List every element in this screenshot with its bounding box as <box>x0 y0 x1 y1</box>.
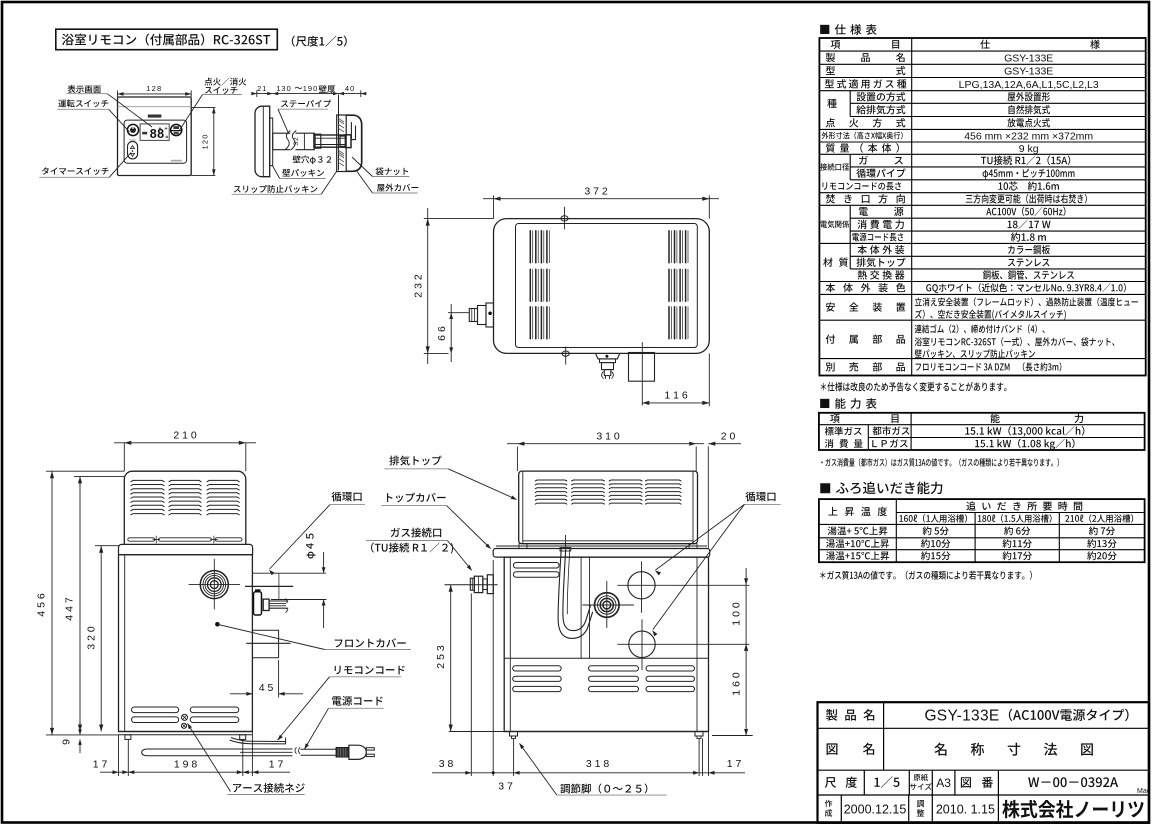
svg-text:190: 190 <box>303 84 319 93</box>
dimension 253 gas inlet height <box>435 585 504 732</box>
capacity row LPガス <box>872 439 1074 450</box>
remote control title box RC-326ST <box>56 29 277 50</box>
spec row 熱交換器 <box>858 270 1074 279</box>
power cord and plug <box>142 745 375 759</box>
spec row 焚き口方向 <box>826 194 1087 204</box>
spec row 点火方式 <box>826 118 1050 127</box>
spec table heading 仕様表 <box>820 24 877 35</box>
svg-text:4 5: 4 5 <box>259 682 274 694</box>
remote face panel <box>124 120 187 163</box>
side view bottom vents <box>132 707 239 723</box>
dimension 120 remote height <box>191 107 215 175</box>
svg-text:1 0 0: 1 0 0 <box>731 602 743 626</box>
label リモコンコード remote cord <box>278 666 405 741</box>
title block grid <box>818 702 1150 823</box>
reheating row +10C <box>826 539 1117 548</box>
wall packing plate <box>270 118 273 166</box>
spec row 電源 <box>859 207 1066 217</box>
side view exhaust bottom slots <box>128 536 242 544</box>
dimension 128 remote width <box>118 84 192 97</box>
dimension 320 body height <box>86 546 119 732</box>
circulation hose <box>558 535 593 638</box>
svg-text:120: 120 <box>201 133 210 149</box>
plan view bottom hanger bolt <box>562 347 569 365</box>
dimension 66 gas inlet offset <box>436 304 469 362</box>
label 表示画面 display screen <box>66 85 152 127</box>
spec row リモコンコードの長さ <box>822 181 1058 190</box>
bath remote front view outline <box>118 97 192 176</box>
front view top cover <box>493 544 710 557</box>
side view upper port stub and φ45 extension lines <box>245 573 326 599</box>
spec table footnote <box>821 382 1007 391</box>
svg-text:2010. 1.15: 2010. 1.15 <box>936 802 995 816</box>
svg-text:3 7 2: 3 7 2 <box>584 186 608 198</box>
plan view exhaust duct rectangle <box>629 353 655 382</box>
bottom dimension line 38-37-318-17 <box>432 560 745 792</box>
inner sliding pipe <box>314 134 346 148</box>
dimension 372 plan width <box>483 186 719 219</box>
reheating row +15C <box>826 551 1117 560</box>
spec row 型式適用ガス種 <box>825 79 1099 91</box>
reheating table grid <box>819 499 1145 562</box>
side view lower port stub <box>246 630 290 657</box>
front cover reference dot <box>215 622 325 650</box>
spec table grid <box>819 38 1145 376</box>
Mac note <box>1137 788 1151 795</box>
svg-text:9 kg: 9 kg <box>1019 143 1039 155</box>
capacity row 都市ガス <box>872 426 1084 437</box>
title block 製品名 row <box>826 707 1129 724</box>
dimension 9 base height <box>61 722 82 753</box>
wall section line <box>338 95 340 171</box>
capacity group 標準ガス消費量 <box>825 427 863 448</box>
svg-text:6 6: 6 6 <box>436 326 448 341</box>
spec row 型式 <box>826 66 1053 78</box>
remote ignition switch button <box>171 124 182 135</box>
reheating row +5C <box>828 526 1115 535</box>
front view upper left vents <box>513 563 559 578</box>
pump port fitting <box>582 581 634 628</box>
spec group 電気関係 <box>820 220 849 228</box>
remote logo <box>148 115 162 118</box>
label フロントカバー front cover <box>325 638 411 649</box>
lower circulation port circle <box>617 619 749 670</box>
svg-text:1 1 6: 1 1 6 <box>664 390 688 402</box>
spec row 本体外装色 <box>826 283 1126 293</box>
svg-text:32: 32 <box>293 137 300 146</box>
cap nut on pipe <box>340 135 351 148</box>
spec row 給排気方式 <box>856 105 1050 114</box>
spec row 製品名 <box>826 52 1054 64</box>
dimension 232 plan depth <box>413 208 494 364</box>
svg-text:3 1 8: 3 1 8 <box>586 758 610 770</box>
spec row 付属部品 <box>826 324 1115 358</box>
svg-text:A3: A3 <box>936 776 951 790</box>
svg-text:1 6 0: 1 6 0 <box>731 672 743 696</box>
svg-text:1 9 8: 1 9 8 <box>174 759 198 771</box>
side view drain fitting <box>254 589 289 615</box>
remote cord under unit <box>230 738 286 745</box>
label 点火/消火スイッチ ignition switch <box>179 78 246 131</box>
dimension 310 exhaust width <box>507 431 704 472</box>
dimension 45 port length <box>230 660 303 698</box>
svg-text:GSY-133E: GSY-133E <box>1004 52 1053 64</box>
spec row 質量 <box>826 143 1039 155</box>
label 循環口 left side view <box>269 492 365 576</box>
svg-text:Mac: Mac <box>1137 788 1151 795</box>
side view main body <box>119 555 253 732</box>
reheating header tub sizes <box>899 514 1133 523</box>
label 袋ナット cap nut <box>352 157 409 177</box>
spec row 排気トップ <box>856 258 1049 267</box>
svg-text:1 7: 1 7 <box>93 759 108 771</box>
dimension 116 exhaust duct offset <box>642 342 709 406</box>
svg-text:456 mm ×232 mm ×372mm: 456 mm ×232 mm ×372mm <box>964 130 1093 142</box>
label 屋外カバー outdoor cover <box>357 172 418 194</box>
plan view gas inlet fitting <box>469 303 493 327</box>
svg-text:4 5 6: 4 5 6 <box>36 593 48 617</box>
svg-text:40: 40 <box>345 84 355 93</box>
scale note (尺度1/5) <box>292 36 347 47</box>
title block date row <box>825 800 1144 818</box>
svg-text:3 1 0: 3 1 0 <box>596 431 620 443</box>
dimension 17-198-17 feet spacing <box>93 732 290 777</box>
front view base and feet <box>504 732 708 739</box>
svg-text:128: 128 <box>146 84 162 93</box>
side view base and feet <box>119 732 253 740</box>
svg-text:3 2 0: 3 2 0 <box>86 626 98 650</box>
label アース接続ネジ earth screw <box>187 723 305 795</box>
remote model text <box>171 160 182 162</box>
label 壁穴φ32 wall hole <box>293 155 332 164</box>
front view main body <box>504 557 708 731</box>
remote timer switch pill <box>128 139 138 159</box>
label 電源コード power cord <box>304 696 384 749</box>
svg-text:GSY-133E: GSY-133E <box>1004 66 1053 78</box>
plan view top cover panel <box>516 224 698 348</box>
front view exhaust louvres <box>535 480 682 504</box>
reheating header 上昇温度 追いだき所要時間 <box>828 501 1082 516</box>
front view exhaust top <box>519 471 698 544</box>
svg-text:130: 130 <box>276 84 292 93</box>
spec row ガス <box>859 156 1070 166</box>
dimension 456 total height <box>36 471 125 735</box>
plan view left vent slots <box>530 231 549 339</box>
capacity table heading 能力表 <box>820 398 877 409</box>
side view exhaust top <box>124 471 246 544</box>
label スリップ防止パッキン anti-slip packing <box>232 171 337 194</box>
svg-text:9: 9 <box>61 739 73 745</box>
spec row 電源コード長さ <box>852 232 1046 241</box>
reheating capacity heading ふろ追いだき能力 <box>820 482 942 495</box>
dimension line remote side 21 / 130-190 / 40 <box>251 84 366 97</box>
svg-text:2000.12.15: 2000.12.15 <box>844 802 907 816</box>
stay pipe <box>273 131 315 151</box>
spec row 安全装置 <box>826 297 1138 319</box>
spec group 種 <box>827 99 836 108</box>
wall thickness label 壁厚 <box>319 85 335 93</box>
outdoor cover mounting plate <box>337 115 347 172</box>
label トップカバー top cover <box>381 493 491 549</box>
side view top cover band <box>119 544 253 554</box>
front view gas connection fitting <box>445 575 498 594</box>
front view lower vents <box>513 666 695 692</box>
plan view drain fitting <box>596 353 620 379</box>
svg-text:3 7: 3 7 <box>498 780 513 792</box>
label ガス接続口 gas connection <box>366 528 472 571</box>
svg-text:LPG,13A,12A,6A,L1,5C,L2,L3: LPG,13A,12A,6A,L1,5C,L2,L3 <box>959 79 1099 91</box>
svg-text:4 4 7: 4 4 7 <box>64 597 76 621</box>
remote side view body <box>255 106 270 177</box>
label 循環口 front view ports <box>652 492 780 637</box>
label タイマースイッチ timer switch <box>39 153 131 178</box>
pipe size 32 note <box>293 137 300 146</box>
label 排気トップ exhaust top <box>384 456 517 500</box>
svg-text:GSY-133E: GSY-133E <box>924 707 999 724</box>
spec row 消費電力 <box>858 220 1051 229</box>
spec row 循環パイプ <box>856 168 1074 178</box>
upper circulation port circle <box>617 561 749 613</box>
title block scale row <box>825 774 1118 790</box>
spec table header row <box>831 40 1100 49</box>
dimension 447 height <box>64 476 125 731</box>
svg-text:1 7: 1 7 <box>727 758 742 770</box>
spec row 別売部品 <box>826 362 1062 371</box>
dimension 160 lower port height <box>617 644 752 735</box>
svg-text:21: 21 <box>257 84 267 93</box>
spec group 接続口径 <box>820 163 849 170</box>
svg-text:3 8: 3 8 <box>439 758 454 770</box>
earth screw symbols <box>181 714 187 728</box>
side view exhaust louvres <box>131 480 240 515</box>
dimension 210 exhaust width <box>114 430 256 472</box>
dimension φ45 port diameter <box>306 534 325 629</box>
plan view right vent slots <box>669 231 688 339</box>
svg-text:88: 88 <box>150 127 165 141</box>
capacity table grid <box>819 413 1145 450</box>
svg-text:2 1 0: 2 1 0 <box>173 430 197 442</box>
remote operation switch button <box>127 124 138 135</box>
remote display window <box>140 124 169 141</box>
label 壁パッキン wall packing <box>272 165 326 179</box>
title block 図名 row <box>827 743 1093 756</box>
label ステーパイプ stay pipe <box>278 100 331 133</box>
svg-text:2 3 2: 2 3 2 <box>413 274 425 298</box>
capacity footnote <box>821 458 1059 467</box>
side view circulation port circles <box>189 559 240 610</box>
outdoor cover <box>346 115 362 171</box>
spec row 設置の方式 <box>857 92 1050 101</box>
spec row 本体外装 <box>857 245 1050 254</box>
spec group 材質 <box>823 257 848 266</box>
dimension 100 port spacing <box>731 568 749 651</box>
spec row 外形寸法 <box>822 130 1094 142</box>
label 調節脚 adjustable feet <box>519 743 667 795</box>
reheating footnote <box>820 571 1032 580</box>
svg-text:2 0: 2 0 <box>721 431 736 443</box>
plan view outer case <box>494 219 710 354</box>
plan view top hanger bolt <box>561 207 568 230</box>
svg-text:1 7: 1 7 <box>269 759 284 771</box>
svg-text:2 5 3: 2 5 3 <box>435 645 447 669</box>
dimension 20 side offset <box>708 431 741 549</box>
capacity table header <box>830 414 1083 423</box>
label 運転スイッチ operation switch <box>57 99 129 132</box>
